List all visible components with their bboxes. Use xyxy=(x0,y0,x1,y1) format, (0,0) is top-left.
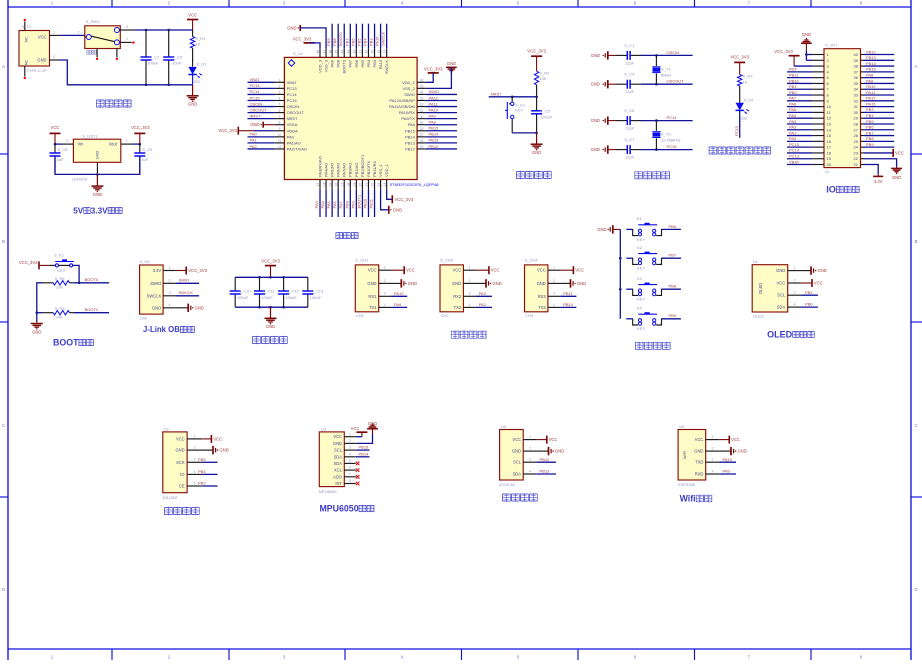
svg-text:VSS_1: VSS_1 xyxy=(378,164,383,177)
key S_K1 reset button xyxy=(505,97,526,133)
svg-text:OLED: OLED xyxy=(758,283,763,294)
svg-text:27: 27 xyxy=(854,127,859,132)
svg-text:VCC: VCC xyxy=(814,280,823,285)
svg-text:1K: 1K xyxy=(743,80,748,85)
svg-text:B: B xyxy=(915,239,918,244)
svg-text:PA8: PA8 xyxy=(866,72,874,77)
svg-text:GND: GND xyxy=(175,448,184,453)
ground GND S_CH1 xyxy=(391,279,417,287)
net label PA5 mcu bottom xyxy=(326,190,332,217)
net label PA6 mcu bottom xyxy=(332,190,338,217)
net label PC14 io left xyxy=(787,148,812,153)
svg-text:PB5: PB5 xyxy=(360,59,365,67)
svg-text:SCL: SCL xyxy=(334,448,343,453)
svg-text:VCC: VCC xyxy=(188,13,197,18)
key K3 xyxy=(626,276,661,302)
ground GND power circuit xyxy=(187,96,199,107)
svg-text:PB4: PB4 xyxy=(198,469,206,474)
switch pin 1 open xyxy=(120,37,132,42)
net label PA6 io left xyxy=(787,101,812,106)
svg-text:16: 16 xyxy=(827,139,832,144)
svg-text:45: 45 xyxy=(334,50,338,54)
svg-text:PA8: PA8 xyxy=(408,122,416,127)
svg-text:PB10: PB10 xyxy=(789,78,800,83)
svg-text:RST: RST xyxy=(789,67,798,72)
svg-text:VCC: VCC xyxy=(695,437,704,442)
junction xyxy=(36,311,39,314)
S_CH1 pin stubs xyxy=(379,266,391,308)
svg-text:Vin: Vin xyxy=(78,142,85,147)
svg-text:VCC_3V3: VCC_3V3 xyxy=(424,67,443,72)
svg-text:PB0: PB0 xyxy=(789,90,797,95)
svg-text:23: 23 xyxy=(377,183,381,187)
net label PC14 mcu left xyxy=(248,89,275,94)
svg-text:PA2: PA2 xyxy=(250,144,258,149)
svg-text:ADO: ADO xyxy=(333,474,342,479)
svg-text:LED: LED xyxy=(192,79,200,84)
title keys circuit 按键电路 xyxy=(635,342,643,350)
svg-text:S_U1: S_U1 xyxy=(293,51,304,56)
svg-text:21: 21 xyxy=(854,162,859,167)
net label PA11 mcu right xyxy=(426,101,457,106)
svg-text:5: 5 xyxy=(349,459,351,463)
svg-text:SWIO: SWIO xyxy=(429,89,440,94)
junction xyxy=(145,29,148,32)
svg-text:S_R5: S_R5 xyxy=(55,306,66,311)
svg-text:32: 32 xyxy=(854,98,859,103)
svg-text:24: 24 xyxy=(854,145,859,150)
net label PC15 io left xyxy=(787,142,812,147)
svg-text:VDD_2: VDD_2 xyxy=(402,80,416,85)
svg-text:PA5: PA5 xyxy=(326,200,331,208)
title storage module 存储模块 xyxy=(503,493,511,501)
svg-text:PB3: PB3 xyxy=(866,107,874,112)
svg-text:PB1: PB1 xyxy=(805,290,813,295)
svg-text:VCC_3V3: VCC_3V3 xyxy=(261,259,280,264)
keys left rail xyxy=(619,229,621,318)
open pin marker xyxy=(116,58,118,60)
svg-text:31: 31 xyxy=(854,104,859,109)
svg-text:100uF: 100uF xyxy=(310,295,322,300)
svg-text:PA10: PA10 xyxy=(866,84,876,89)
net label PA0 mcu left xyxy=(248,132,275,137)
svg-text:24: 24 xyxy=(383,183,387,187)
junction xyxy=(78,282,81,285)
svg-text:GND: GND xyxy=(266,324,275,329)
svg-text:1: 1 xyxy=(794,266,796,270)
net label PB15 io right xyxy=(864,67,894,72)
svg-text:10: 10 xyxy=(827,104,832,109)
svg-text:PB3: PB3 xyxy=(372,59,377,67)
net label PA8 io right xyxy=(864,72,894,77)
svg-text:PB14: PB14 xyxy=(359,451,370,456)
svg-text:GND: GND xyxy=(537,281,546,286)
svg-text:PB9: PB9 xyxy=(866,142,874,147)
svg-text:PC15: PC15 xyxy=(789,142,800,147)
svg-text:SDA: SDA xyxy=(334,454,343,459)
svg-text:19: 19 xyxy=(353,183,357,187)
svg-text:4: 4 xyxy=(794,303,796,307)
svg-text:PB8: PB8 xyxy=(669,284,677,289)
key K2 xyxy=(626,245,661,271)
mcu S_U1 STM32F103C8T6_LQFP48 xyxy=(284,51,439,187)
svg-text:10K: 10K xyxy=(539,76,546,81)
svg-text:GND: GND xyxy=(367,281,376,286)
svg-text:RX3: RX3 xyxy=(538,294,547,299)
svg-text:12: 12 xyxy=(278,145,282,149)
svg-text:PC15: PC15 xyxy=(667,144,678,149)
svg-text:13: 13 xyxy=(827,121,832,126)
svg-text:2: 2 xyxy=(712,447,714,451)
net label PB13 io right xyxy=(864,55,894,60)
svg-text:PA6: PA6 xyxy=(789,101,797,106)
svg-text:PA9/TX: PA9/TX xyxy=(401,116,415,121)
svg-text:PA12/USB/DP: PA12/USB/DP xyxy=(389,98,415,103)
net label PB7 io right xyxy=(864,130,894,135)
svg-text:PC15: PC15 xyxy=(287,98,298,103)
svg-text:1: 1 xyxy=(469,266,471,270)
svg-text:44: 44 xyxy=(340,50,344,54)
svg-text:CH3: CH3 xyxy=(525,313,534,318)
net label PB0 mcu bottom xyxy=(344,190,350,217)
net label RST io left xyxy=(787,67,812,72)
svg-text:U2: U2 xyxy=(164,426,170,431)
svg-text:TX3: TX3 xyxy=(538,305,546,310)
svg-text:100uF: 100uF xyxy=(541,114,553,119)
svg-text:SDA: SDA xyxy=(777,305,786,310)
svg-text:PB15: PB15 xyxy=(405,128,416,133)
left rail boot xyxy=(37,283,42,323)
power flag VCC_3V3 io port xyxy=(774,49,812,66)
svg-text:BOOT0: BOOT0 xyxy=(85,277,99,282)
wire key bottom xyxy=(512,132,536,134)
svg-text:VCC: VCC xyxy=(491,268,500,273)
wire switch to VCC rail xyxy=(134,29,193,31)
power flag GND mcu right VSS_2 xyxy=(426,61,457,89)
svg-text:3: 3 xyxy=(553,292,555,296)
svg-text:U5: U5 xyxy=(679,424,685,429)
connector S_CH2 serial xyxy=(440,258,463,319)
svg-text:K2: K2 xyxy=(637,245,643,250)
svg-text:PA12: PA12 xyxy=(866,96,876,101)
net label PB4 mcu top xyxy=(362,24,368,49)
svg-text:D: D xyxy=(2,587,5,592)
svg-text:1: 1 xyxy=(53,30,55,34)
svg-text:S_C6: S_C6 xyxy=(624,108,635,113)
switch pin 3 xyxy=(120,25,135,30)
net label PA7 io left xyxy=(787,96,812,101)
svg-text:22: 22 xyxy=(371,183,375,187)
title serial circuit 串口电路 xyxy=(451,330,459,338)
capacitor S_C12 100uF filter xyxy=(278,277,300,307)
ground GND ds1302 xyxy=(202,446,229,454)
svg-text:3: 3 xyxy=(384,292,386,296)
svg-text:SCL: SCL xyxy=(513,460,522,465)
svg-text:12pF: 12pF xyxy=(625,60,635,65)
svg-text:1: 1 xyxy=(169,266,171,270)
svg-text:U3: U3 xyxy=(321,426,327,431)
svg-text:S_CH1: S_CH1 xyxy=(355,258,369,263)
svg-text:OLED: OLED xyxy=(753,314,764,319)
svg-text:PA1: PA1 xyxy=(250,138,258,143)
svg-text:S_R4: S_R4 xyxy=(55,276,66,281)
svg-text:NC: NC xyxy=(25,37,29,43)
svg-text:1: 1 xyxy=(279,79,281,83)
svg-text:6: 6 xyxy=(349,466,351,470)
net label PB7 key K2 xyxy=(662,253,681,259)
svg-text:37: 37 xyxy=(383,50,387,54)
net label PB5 mcu top xyxy=(356,24,362,49)
svg-text:GND: GND xyxy=(591,118,600,123)
svg-text:PB7: PB7 xyxy=(344,38,349,46)
svg-text:VDDA: VDDA xyxy=(287,128,298,133)
net label OSCIN mcu left xyxy=(248,101,275,106)
svg-text:GND: GND xyxy=(452,281,461,286)
power flag 3.3V io pin21 xyxy=(864,165,883,184)
svg-text:PA9: PA9 xyxy=(723,469,731,474)
svg-text:RX2: RX2 xyxy=(453,294,462,299)
svg-text:PC13: PC13 xyxy=(250,83,261,88)
svg-text:PB0: PB0 xyxy=(344,200,349,208)
svg-text:S_R1: S_R1 xyxy=(195,36,206,41)
svg-text:40: 40 xyxy=(365,50,369,54)
svg-text:VCC: VCC xyxy=(549,437,558,442)
net label PB1 oled xyxy=(801,290,818,295)
net label BOOT0 mcu top xyxy=(338,24,344,49)
svg-text:4: 4 xyxy=(469,303,471,307)
net label PA15 io right xyxy=(864,101,894,106)
svg-text:3: 3 xyxy=(66,139,68,143)
svg-text:Vout: Vout xyxy=(109,142,118,147)
svg-text:100uF: 100uF xyxy=(261,295,273,300)
svg-text:46: 46 xyxy=(328,50,332,54)
svg-text:PC14: PC14 xyxy=(287,92,298,97)
regulator S_LDO1 LDO3V3 xyxy=(72,134,121,182)
net label VBAT mcu left xyxy=(248,77,275,82)
svg-text:S_LDO1: S_LDO1 xyxy=(82,134,98,139)
svg-text:38: 38 xyxy=(377,50,381,54)
svg-text:VCC: VCC xyxy=(351,426,360,431)
svg-text:VCC: VCC xyxy=(512,437,521,442)
power flag VCC_3V3 run led xyxy=(730,54,749,74)
ground GND for S_C7 xyxy=(591,145,616,153)
svg-text:100uF: 100uF xyxy=(285,295,297,300)
svg-text:PB9: PB9 xyxy=(326,38,331,46)
svg-text:PB1: PB1 xyxy=(350,200,355,208)
power flag GND mcu VSS_1 xyxy=(381,190,403,214)
title clock module 时钟模块 xyxy=(165,507,173,515)
svg-text:PB15: PB15 xyxy=(866,67,877,72)
ground GND keys xyxy=(597,225,620,233)
svg-text:KEY: KEY xyxy=(637,297,645,302)
net label SWCLK mcu top xyxy=(381,24,387,49)
svg-text:S_D1: S_D1 xyxy=(197,62,208,67)
net label PA4 io left xyxy=(787,113,812,118)
svg-text:2: 2 xyxy=(78,30,80,34)
svg-text:D: D xyxy=(914,587,917,592)
svg-text:TX2: TX2 xyxy=(454,305,462,310)
svg-text:PC14: PC14 xyxy=(667,115,678,120)
svg-text:PA2: PA2 xyxy=(479,302,487,307)
svg-text:5: 5 xyxy=(279,103,281,107)
svg-text:VCC: VCC xyxy=(575,268,584,273)
svg-text:PA11/USB/DM: PA11/USB/DM xyxy=(389,104,415,109)
net label PB9 mcu top xyxy=(326,24,332,49)
ground GND io right xyxy=(864,159,902,180)
power flag VCC_3V3 jlink xyxy=(176,267,208,275)
junction xyxy=(511,96,514,99)
svg-text:CE: CE xyxy=(179,484,185,489)
svg-text:SDA: SDA xyxy=(513,472,522,477)
net label PA9 esp8266 xyxy=(719,469,736,474)
svg-text:PB11: PB11 xyxy=(563,291,573,296)
svg-text:SCK: SCK xyxy=(176,460,185,465)
svg-text:STM32F103C8T6_LQFP48: STM32F103C8T6_LQFP48 xyxy=(390,182,440,187)
net label OSCOUT mcu left xyxy=(248,107,275,112)
junctions crystal rows xyxy=(655,54,658,57)
ground GND at24c02 xyxy=(537,447,565,455)
svg-text:20: 20 xyxy=(359,183,363,187)
svg-text:J-Link OB: J-Link OB xyxy=(143,325,180,334)
svg-text:GND: GND xyxy=(287,25,296,30)
svg-text:GND: GND xyxy=(333,441,342,446)
svg-text:VSS_3: VSS_3 xyxy=(323,59,328,72)
svg-text:GND: GND xyxy=(802,32,811,37)
svg-text:PB7: PB7 xyxy=(348,59,353,67)
resistor S_R5 10K xyxy=(42,306,74,320)
svg-text:26: 26 xyxy=(420,139,424,143)
svg-text:GND: GND xyxy=(152,305,161,310)
net label NRST mcu left xyxy=(248,113,275,118)
svg-text:VCC: VCC xyxy=(731,437,740,442)
svg-text:PB8: PB8 xyxy=(332,38,337,46)
svg-text:PA6: PA6 xyxy=(332,200,337,208)
svg-text:4: 4 xyxy=(194,470,196,474)
svg-text:2: 2 xyxy=(553,279,555,283)
power flag VCC esp8266 xyxy=(719,436,740,444)
no connect marker mpu6050 xyxy=(356,462,360,466)
svg-text:PB11/RX: PB11/RX xyxy=(372,161,377,177)
svg-text:PB14: PB14 xyxy=(405,134,416,139)
at24c02 pin stubs xyxy=(523,435,537,474)
display U1 OLED xyxy=(752,259,788,319)
svg-text:PB1: PB1 xyxy=(789,84,797,89)
svg-text:21: 21 xyxy=(365,183,369,187)
svg-text:S_C5: S_C5 xyxy=(540,108,551,113)
svg-text:OSCOUT: OSCOUT xyxy=(287,110,305,115)
svg-text:32: 32 xyxy=(420,103,424,107)
svg-text:GND: GND xyxy=(93,192,102,197)
svg-text:18: 18 xyxy=(347,183,351,187)
svg-text:S_C7: S_C7 xyxy=(624,137,635,142)
net label BOOT1 mcu bottom xyxy=(356,190,362,217)
svg-text:PA9: PA9 xyxy=(866,78,874,83)
net label PA2 io left xyxy=(787,125,812,130)
net label PB5 ds1302 xyxy=(198,457,218,462)
svg-text:NC: NC xyxy=(25,60,29,66)
ground GND mpu6050 xyxy=(356,421,378,444)
svg-text:PB12: PB12 xyxy=(405,146,416,151)
svg-text:S_C12: S_C12 xyxy=(287,289,300,294)
svg-text:29: 29 xyxy=(854,116,859,121)
svg-text:PB7: PB7 xyxy=(866,130,874,135)
svg-text:PA15: PA15 xyxy=(866,101,876,106)
svg-text:PB14: PB14 xyxy=(866,61,877,66)
svg-text:18: 18 xyxy=(827,150,832,155)
svg-text:OSCIN: OSCIN xyxy=(250,101,263,106)
svg-text:GND: GND xyxy=(532,150,541,155)
svg-text:4: 4 xyxy=(553,303,555,307)
net label PB12 at24c02 xyxy=(537,457,556,462)
open pin marker xyxy=(96,58,98,60)
svg-text:5: 5 xyxy=(194,481,196,485)
svg-text:30: 30 xyxy=(420,115,424,119)
power flag VCC xyxy=(187,13,198,30)
svg-text:PB13: PB13 xyxy=(405,140,416,145)
svg-text:PB13: PB13 xyxy=(429,138,440,143)
svg-text:PB6: PB6 xyxy=(669,224,677,229)
net label PB11 mcu bottom xyxy=(369,190,375,217)
svg-text:S_K2: S_K2 xyxy=(54,253,65,258)
svg-text:U4: U4 xyxy=(501,424,507,429)
capacitor S_C5 100uF reset xyxy=(531,97,553,133)
mcu right pin stubs and numbers xyxy=(417,79,426,150)
key K4 xyxy=(626,306,661,332)
net label PA10 mcu right xyxy=(426,107,457,112)
svg-text:36: 36 xyxy=(420,79,424,83)
svg-text:100uF: 100uF xyxy=(237,295,249,300)
svg-text:PB2/BOOT1: PB2/BOOT1 xyxy=(360,154,365,177)
svg-text:S_H1: S_H1 xyxy=(140,259,151,264)
connector S_H1 J-Link xyxy=(140,259,164,320)
svg-text:PB10: PB10 xyxy=(563,302,574,307)
capacitor S_C10 100uF filter xyxy=(230,277,252,307)
wire gnd to pin47 xyxy=(300,28,326,49)
svg-text:1: 1 xyxy=(712,435,714,439)
net label PB9 key K4 xyxy=(662,313,681,319)
svg-text:13: 13 xyxy=(316,183,320,187)
svg-text:25: 25 xyxy=(854,139,859,144)
svg-text:KEY: KEY xyxy=(637,266,645,271)
svg-text:VCC: VCC xyxy=(406,268,415,273)
title power circuit 电源电路 xyxy=(96,99,104,107)
svg-text:PB0: PB0 xyxy=(805,302,813,307)
imu U3 MPU6050 xyxy=(319,426,345,494)
net label PB4 io right xyxy=(864,113,894,118)
svg-text:3: 3 xyxy=(529,458,531,462)
svg-text:OSCOUT: OSCOUT xyxy=(667,79,685,84)
junction bottom xyxy=(145,84,148,87)
svg-text:VDD_3: VDD_3 xyxy=(317,59,322,73)
svg-text:14: 14 xyxy=(827,127,832,132)
svg-text:GND: GND xyxy=(220,448,229,453)
net label PB14 io right xyxy=(864,61,894,66)
svg-text:PB12: PB12 xyxy=(540,457,551,462)
net label PC13 run led xyxy=(734,110,740,137)
svg-text:1: 1 xyxy=(529,435,531,439)
svg-text:3: 3 xyxy=(126,25,128,29)
no connect marker mpu6050 xyxy=(356,468,360,472)
wire ldo out xyxy=(132,143,140,145)
net label PB7 mcu top xyxy=(344,24,350,49)
net label PA5 io left xyxy=(787,107,812,112)
svg-text:PB4: PB4 xyxy=(362,38,367,46)
net label PB3 io right xyxy=(864,107,894,112)
svg-text:48: 48 xyxy=(316,50,320,54)
svg-text:PA0: PA0 xyxy=(250,132,258,137)
svg-text:NRST: NRST xyxy=(250,113,261,118)
ground GND for S_C4 xyxy=(591,80,616,88)
